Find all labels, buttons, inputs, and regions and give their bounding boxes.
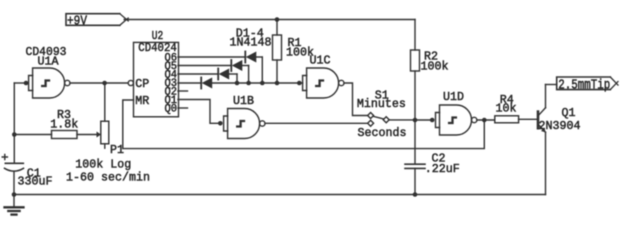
svg-text:P1: P1 <box>110 143 124 157</box>
switch arm <box>373 116 383 119</box>
svg-text:100k: 100k <box>421 60 449 74</box>
node bus / R1 <box>275 81 280 86</box>
wire summing bus <box>212 82 302 84</box>
wire Q5 row <box>178 65 231 67</box>
wire Q2 stub <box>178 90 188 92</box>
svg-text:MR: MR <box>135 94 149 108</box>
wire U1C output to Minutes contact <box>344 83 368 116</box>
transistor Q1 2N3904 <box>538 85 581 195</box>
node junction 9V/R1 <box>275 17 280 22</box>
wire U1A output to CP <box>70 82 128 84</box>
wire U1A input from left rail <box>14 82 26 84</box>
wire MR reset net <box>123 100 485 149</box>
capacitor C2 <box>405 120 460 195</box>
pole <box>383 117 389 123</box>
svg-text:+9V: +9V <box>67 14 87 30</box>
wire R2 bottom lead <box>414 71 416 120</box>
svg-text:330uF: 330uF <box>18 174 53 188</box>
resistor R2 <box>411 49 449 73</box>
contact Minutes <box>368 113 374 119</box>
svg-text:1N4148: 1N4148 <box>230 35 272 49</box>
svg-text:U1D: U1D <box>443 90 464 104</box>
svg-text:2.5mmTip: 2.5mmTip <box>558 78 610 94</box>
node U1A output / P1 junction <box>102 81 107 86</box>
svg-text:U1A: U1A <box>38 54 60 68</box>
wire D1 cathode drop <box>261 57 263 83</box>
diode D1 (Q6) <box>245 52 262 63</box>
node S1/R2/C2/U1D junction <box>413 118 418 123</box>
wire pole to junction <box>389 119 415 121</box>
svg-text:U1B: U1B <box>233 94 254 108</box>
svg-text:1.8k: 1.8k <box>50 118 78 132</box>
wire Q0 stub <box>178 107 188 109</box>
diode D3 (Q4) <box>218 69 237 80</box>
node C2 / bottom rail <box>413 192 418 197</box>
diode D2 (Q5) <box>231 60 248 71</box>
op: NAND gate U1A CD4093 <box>24 45 70 98</box>
output flag 2.5mmTip <box>557 77 618 94</box>
ground <box>5 195 24 215</box>
wire left rail <box>13 83 15 163</box>
wire collector to output flag <box>546 84 557 86</box>
svg-text:Q0: Q0 <box>165 104 178 116</box>
resistor R1 <box>273 35 315 60</box>
wire Q4 row <box>178 73 218 75</box>
wire U1D output <box>477 119 495 121</box>
wire Q6 row <box>178 56 245 58</box>
svg-text:.22uF: .22uF <box>425 162 460 176</box>
svg-text:10k: 10k <box>496 102 517 116</box>
op: NAND gate U1C <box>297 53 344 98</box>
wire R1 bottom lead <box>276 60 278 83</box>
op: NAND gate U1D <box>430 90 477 135</box>
svg-text:CP: CP <box>135 77 149 91</box>
wire Q3 row <box>178 82 201 84</box>
contact Seconds <box>368 120 374 126</box>
wire R2 top lead <box>414 20 416 51</box>
wire Q1 to U1B <box>178 100 220 124</box>
svg-text:Minutes: Minutes <box>357 97 406 111</box>
IC U2 CD4024 counter <box>128 29 178 117</box>
switch S1 <box>357 88 407 140</box>
diode D4 (Q3) <box>201 78 212 89</box>
resistor R4 <box>495 93 537 123</box>
node U1D output / MR feedback <box>482 118 487 123</box>
wire junction to U1D <box>415 119 432 121</box>
wire U1B output to Seconds contact <box>265 122 368 124</box>
svg-text:1-60 sec/min: 1-60 sec/min <box>66 170 150 184</box>
svg-text:Q1: Q1 <box>562 106 576 120</box>
node C1 / ground rail <box>12 192 17 197</box>
node left rail / R3 <box>12 132 17 137</box>
pin CP bubble <box>128 80 133 85</box>
capacitor C1 <box>2 154 52 194</box>
svg-text:2N3904: 2N3904 <box>539 119 581 133</box>
diodes D1-4 1N4148 labels <box>230 26 272 49</box>
wire R1 top lead <box>276 20 278 36</box>
op: NAND gate U1B <box>218 94 265 139</box>
svg-text:U1C: U1C <box>310 53 331 67</box>
resistor R3 <box>14 108 101 139</box>
wire D3 drop <box>236 74 238 83</box>
power flag +9V <box>66 14 128 30</box>
wire +9V rail <box>124 19 415 21</box>
potentiometer P1 <box>66 83 150 184</box>
svg-text:Seconds: Seconds <box>358 126 407 140</box>
wire bottom rail <box>14 194 546 196</box>
wire D2 drop <box>248 66 250 84</box>
